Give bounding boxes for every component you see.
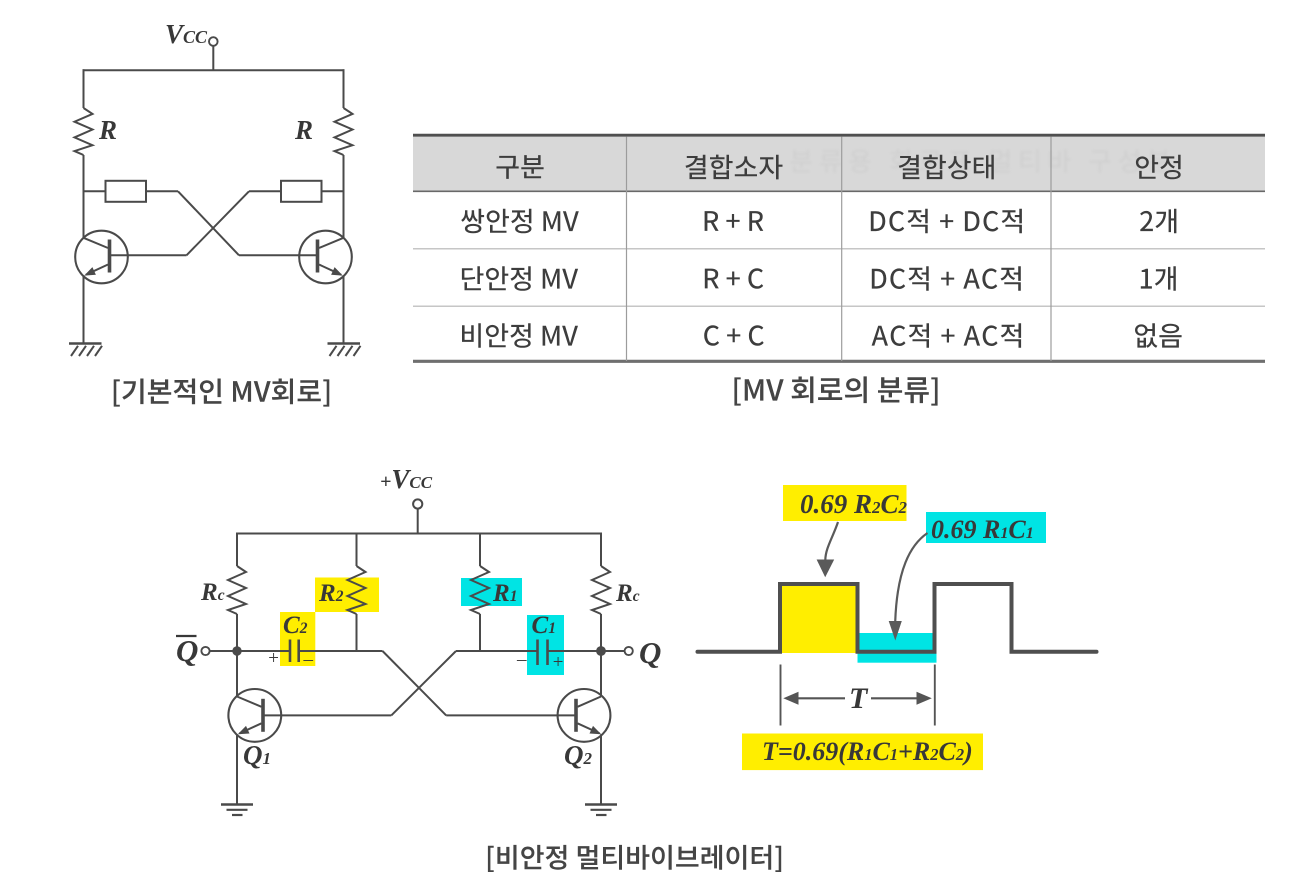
wire bottom rail	[236, 533, 602, 535]
transistor right (top circuit)	[299, 231, 352, 284]
table header bottom border	[413, 190, 1265, 192]
wire Q-bar to node	[210, 650, 237, 652]
wire Q1 base horizontal	[264, 714, 391, 716]
svg-text:–: –	[516, 649, 527, 670]
cell DC적 + AC적	[872, 266, 1021, 291]
wire right branch to collector	[343, 155, 345, 238]
transistor Q2	[558, 689, 611, 742]
caption astable multivibrator	[488, 845, 781, 872]
caption MV table	[734, 376, 937, 405]
table column separator 1	[626, 137, 628, 362]
svg-text:Q: Q	[639, 635, 661, 670]
header 결합소자	[686, 155, 783, 180]
waveform trace	[698, 584, 1097, 652]
resistor Rc left	[228, 566, 246, 614]
wire C1 to node	[548, 650, 602, 652]
wire +Vcc drop	[417, 509, 419, 534]
wire right branch upper	[343, 69, 345, 108]
cell C + C	[704, 325, 764, 346]
svg-text:R: R	[294, 115, 313, 145]
waveform pulse1 yellow fill	[780, 584, 858, 653]
wire diagonal C1-side to Q1 base	[391, 651, 456, 715]
Vcc terminal	[209, 37, 218, 46]
transistor left (top circuit)	[75, 231, 128, 284]
svg-text:0.69 R1C1: 0.69 R1C1	[931, 515, 1034, 544]
formula box	[742, 734, 983, 771]
table row separator 1	[413, 248, 1265, 250]
ground right (top circuit)	[328, 344, 361, 357]
+Vcc terminal	[413, 499, 422, 508]
table column separator 3	[1050, 137, 1052, 362]
table header fill	[413, 137, 1265, 192]
dimension arrow right	[871, 697, 919, 699]
resistor R right	[335, 108, 353, 155]
svg-text:R: R	[98, 115, 117, 145]
svg-text:+VCC: +VCC	[380, 464, 433, 494]
wire cross diagonal right-box to left-base	[187, 191, 250, 255]
svg-text:Q: Q	[176, 633, 198, 668]
dimension line left	[780, 665, 782, 726]
svg-text:+: +	[552, 652, 565, 673]
wire Vcc drop	[212, 46, 214, 71]
header 구분	[497, 155, 544, 179]
wire branch R2 upper	[356, 533, 358, 567]
arrow from R1C1 label to strip	[895, 533, 927, 622]
node left collector junction	[232, 646, 241, 655]
wire cross diagonal left-box to right-base	[178, 191, 239, 255]
table bottom border	[413, 360, 1265, 363]
Q-bar overline	[176, 635, 197, 637]
resistor R left	[75, 108, 93, 155]
cell 1개	[1141, 266, 1176, 291]
wire node to Q terminal	[601, 650, 624, 652]
wire C1 to bend	[456, 650, 538, 652]
wire node to C2	[237, 650, 290, 652]
terminal Q	[625, 647, 633, 655]
wire branch R1 lower	[479, 614, 481, 651]
arrow from R2C2 label to pulse	[825, 522, 838, 560]
svg-text:0.69 R2C2: 0.69 R2C2	[800, 489, 908, 519]
header 결합상태	[899, 155, 994, 180]
svg-text:VCC: VCC	[165, 19, 208, 49]
wire branch Rc-right to collector	[600, 614, 602, 697]
caption basic MV circuit	[114, 379, 330, 407]
svg-text:Rc: Rc	[200, 579, 225, 606]
ground Q1	[221, 805, 253, 816]
wire left branch to collector	[83, 155, 85, 238]
wire Q2 emitter to ground	[600, 734, 602, 804]
terminal Q-bar	[201, 647, 209, 655]
wire Q2 base horizontal	[446, 714, 575, 716]
resistor box right	[281, 181, 322, 202]
cell R + R	[705, 211, 764, 231]
label box 0.69 R1C1	[926, 512, 1046, 543]
capacitor C1	[538, 640, 548, 666]
waveform cyan strip	[858, 633, 937, 663]
cell 쌍안정 MV	[461, 209, 579, 234]
cell DC적 + DC적	[871, 209, 1022, 234]
cell R + C	[705, 268, 763, 289]
wire top rail	[83, 69, 345, 71]
svg-text:–: –	[303, 649, 314, 670]
svg-text:Rc: Rc	[615, 580, 640, 607]
table column separator 2	[841, 137, 843, 362]
transistor Q1	[228, 689, 281, 742]
dimension line right	[934, 665, 936, 726]
wire left box lead-in	[84, 190, 106, 192]
highlight box R1	[461, 578, 522, 606]
header 안정	[1136, 155, 1181, 180]
resistor R1	[471, 566, 489, 614]
cell 비안정 MV	[462, 323, 578, 348]
wire branch Rc-left upper	[236, 533, 238, 567]
wire right box lead-out	[249, 190, 281, 192]
wire branch R1 upper	[479, 533, 481, 567]
wire base right	[239, 254, 317, 256]
highlight box C2	[280, 612, 315, 666]
highlight box C1	[527, 615, 564, 675]
cell 단안정 MV	[462, 266, 578, 291]
resistor Rc right	[592, 566, 610, 614]
wire branch Rc-right upper	[600, 533, 602, 567]
wire left box lead-out	[146, 190, 178, 192]
resistor box left	[106, 181, 147, 202]
capacitor C2	[290, 640, 299, 663]
wire Q1 emitter to ground	[236, 734, 238, 804]
table row separator 2	[413, 305, 1265, 307]
node right collector junction	[596, 646, 606, 656]
svg-text:T: T	[849, 682, 869, 715]
dimension arrow left	[796, 697, 845, 699]
wire left branch upper	[83, 69, 85, 108]
cell 2개	[1140, 209, 1176, 234]
table top border	[413, 134, 1265, 137]
svg-text:Q1: Q1	[243, 740, 271, 770]
wire diagonal C2-side to Q2 base	[383, 651, 447, 715]
ghost text	[791, 149, 1170, 173]
wire base left	[111, 254, 187, 256]
highlight box R2	[315, 578, 379, 613]
wire right box lead-in	[322, 190, 344, 192]
svg-text:Q2: Q2	[564, 740, 593, 770]
wire left emitter to ground	[83, 276, 85, 344]
wire C2 to bend	[299, 650, 383, 652]
svg-text:+: +	[267, 648, 280, 669]
label box 0.69 R2C2	[783, 485, 907, 521]
ground Q2	[585, 805, 617, 816]
wire right emitter to ground	[343, 276, 345, 344]
cell AC적 + AC적	[872, 323, 1022, 348]
wire branch Rc-left to collector	[236, 614, 238, 697]
cell 없음	[1135, 323, 1182, 348]
ground left (top circuit)	[69, 344, 102, 357]
resistor R2	[348, 566, 366, 614]
wire branch R2 lower	[356, 614, 358, 651]
